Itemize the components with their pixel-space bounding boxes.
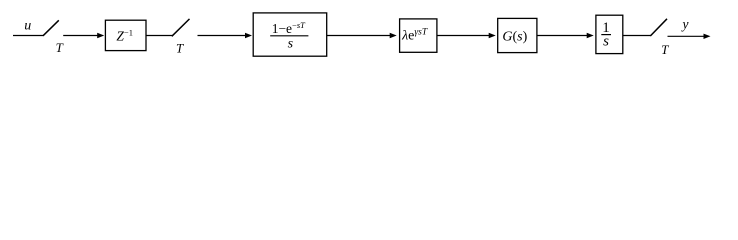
svg-text:s: s (603, 34, 609, 50)
svg-text:y: y (681, 16, 689, 31)
block lambda e^(gamma s T) (400, 19, 437, 52)
wire arrow into lambda block (327, 35, 392, 37)
svg-text:s: s (288, 36, 294, 51)
wire arrow into G block (437, 35, 491, 37)
block Z^-1 (105, 20, 146, 50)
sampler switch 3 (650, 19, 667, 36)
svg-text:T: T (56, 40, 64, 55)
wire arrow into hold block (198, 35, 247, 37)
block zero-order-hold (1-e^-sT)/s (253, 13, 327, 56)
svg-text:T: T (176, 40, 184, 55)
sampler switch 2 (172, 19, 190, 36)
wire output arrow (668, 35, 706, 37)
block integrator 1/s (596, 15, 623, 53)
wire input segment (13, 35, 44, 37)
block G(s) (498, 18, 537, 52)
wire out of integrator (623, 35, 651, 37)
svg-text:G(s): G(s) (502, 29, 527, 44)
wire out of Z block (146, 35, 173, 37)
wire arrow into Z block (63, 35, 99, 37)
svg-text:T: T (661, 42, 669, 57)
wire arrow into integrator block (537, 35, 589, 37)
svg-text:u: u (24, 19, 31, 34)
sampler switch 1 (43, 20, 59, 36)
